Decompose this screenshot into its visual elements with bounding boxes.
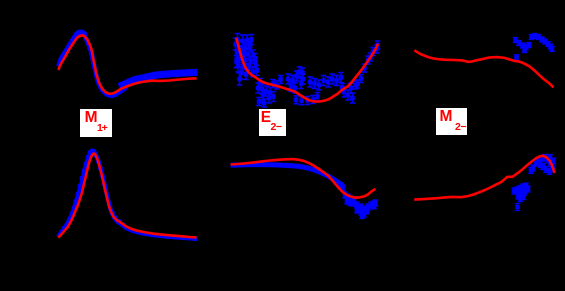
label box M2-	[436, 108, 467, 135]
red curve Im M1+ (bottom-left)	[58, 154, 196, 238]
red curve Re M1+ (top-left)	[58, 35, 196, 93]
red curve Im M2- (bottom-right)	[414, 156, 554, 200]
red curve Re M2- (top-right)	[414, 50, 553, 87]
label box M1+	[80, 109, 112, 137]
blue data markers Re M1+ (top-left)	[57, 31, 127, 98]
blue data band Im M1+ (bottom-left)	[58, 151, 197, 239]
blue data Re M2- scatter (top-right)	[513, 34, 555, 61]
blue data markers Im M1+ (bottom-left)	[62, 149, 198, 241]
red curve Im E2- (bottom-middle)	[231, 159, 376, 198]
red curve Re E2- (top-middle)	[236, 38, 378, 102]
label box E2-	[259, 109, 286, 136]
blue data Im M2- scatter (bottom-right)	[511, 155, 556, 211]
blue data band Re M1+ (top-left)	[58, 32, 197, 96]
blue data band Im E2- (bottom-middle)	[231, 165, 344, 186]
blue data Re E2- scatter (top-middle)	[233, 34, 381, 108]
